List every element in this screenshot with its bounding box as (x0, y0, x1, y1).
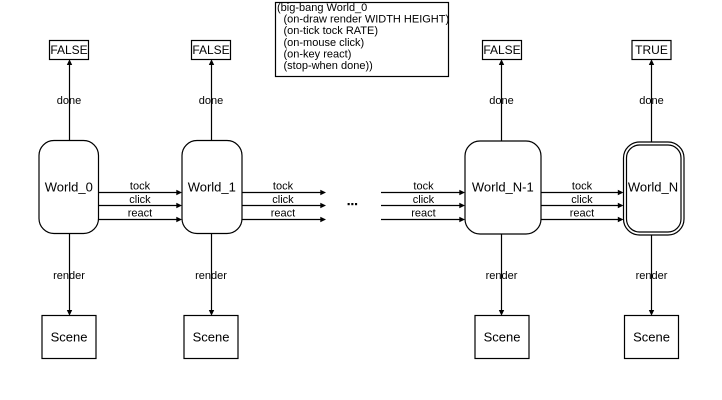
svg-text:render: render (53, 270, 85, 282)
state World_1 (182, 141, 242, 234)
svg-text:click: click (129, 194, 151, 206)
svg-text:react: react (411, 208, 435, 220)
svg-text:(on-draw render WIDTH HEIGHT): (on-draw render WIDTH HEIGHT) (284, 14, 450, 26)
svg-text:render: render (195, 270, 227, 282)
state World_N (final, double border) (624, 142, 685, 235)
svg-text:FALSE: FALSE (192, 43, 229, 57)
svg-text:Scene: Scene (51, 330, 88, 345)
svg-text:done: done (57, 95, 81, 107)
svg-text:click: click (413, 194, 435, 206)
svg-text:World_1: World_1 (188, 180, 236, 195)
wire react 2 (242, 208, 326, 223)
wire react 1 (99, 208, 183, 223)
svg-text:(on-tick tock RATE): (on-tick tock RATE) (284, 25, 379, 37)
svg-text:tock: tock (273, 181, 294, 193)
wire done 1 (57, 59, 81, 140)
svg-text:tock: tock (413, 181, 434, 193)
svg-text:Scene: Scene (193, 330, 230, 345)
node Scene 3 (475, 316, 529, 359)
wire render 2 (195, 234, 227, 316)
svg-text:TRUE: TRUE (635, 43, 668, 57)
node TRUE (632, 41, 671, 60)
wire tock 2 (242, 181, 326, 196)
svg-text:render: render (636, 270, 668, 282)
svg-text:World_N-1: World_N-1 (472, 180, 534, 195)
svg-text:tock: tock (572, 181, 593, 193)
wire done 3 (489, 59, 513, 141)
wire click 4 (541, 194, 624, 208)
svg-text:tock: tock (130, 181, 151, 193)
svg-text:World_0: World_0 (45, 180, 93, 195)
wire tock 3 (381, 181, 465, 196)
wire react 4 (541, 208, 624, 223)
svg-text:done: done (199, 95, 223, 107)
wire click 3 (381, 194, 465, 208)
svg-text:done: done (489, 95, 513, 107)
svg-text:FALSE: FALSE (50, 43, 87, 57)
wire render 4 (636, 235, 668, 316)
wire done 2 (199, 59, 223, 140)
svg-text:(on-key react): (on-key react) (284, 48, 352, 60)
wire tock 4 (541, 181, 624, 196)
wire render 3 (486, 234, 518, 316)
wire done 4 (639, 59, 663, 142)
node FALSE 3 (483, 41, 522, 60)
svg-text:render: render (486, 270, 518, 282)
svg-text:(big-bang World_0: (big-bang World_0 (277, 2, 367, 14)
svg-text:(on-mouse click): (on-mouse click) (284, 37, 365, 49)
node FALSE 2 (192, 41, 231, 60)
wire tock 1 (99, 181, 183, 196)
svg-text:Scene: Scene (633, 330, 670, 345)
state World_N-1 (465, 141, 541, 234)
svg-text:react: react (271, 208, 295, 220)
svg-text:click: click (571, 194, 593, 206)
code box (276, 2, 450, 77)
node Scene 2 (184, 316, 238, 359)
wire react 3 (381, 208, 465, 223)
svg-text:(stop-when done)): (stop-when done)) (284, 60, 373, 72)
node Scene 4 (625, 316, 679, 359)
svg-text:react: react (128, 208, 152, 220)
wire click 2 (242, 194, 326, 208)
svg-text:click: click (272, 194, 294, 206)
node Scene 1 (42, 316, 96, 359)
wire render 1 (53, 234, 85, 316)
ellipsis (348, 203, 358, 205)
svg-text:World_N: World_N (628, 180, 678, 195)
state World_0 (39, 141, 99, 234)
svg-text:done: done (639, 95, 663, 107)
svg-text:FALSE: FALSE (483, 43, 520, 57)
node FALSE 1 (50, 41, 89, 60)
svg-text:Scene: Scene (484, 330, 521, 345)
wire click 1 (99, 194, 183, 208)
svg-text:react: react (570, 208, 594, 220)
